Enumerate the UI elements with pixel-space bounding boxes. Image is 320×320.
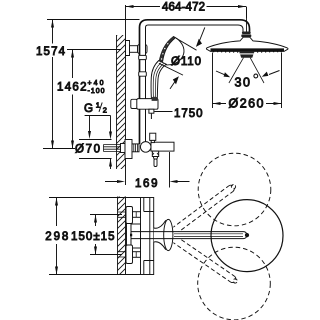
svg-text:30: 30 bbox=[235, 76, 251, 90]
reference line supply centerline bbox=[43, 148, 75, 150]
stem top lower view bbox=[133, 212, 141, 218]
wall hatching lower bbox=[110, 184, 132, 290]
valve ball joint circle bbox=[140, 142, 151, 153]
head circle dashed upper bbox=[198, 153, 271, 226]
spout bell bbox=[154, 219, 174, 250]
svg-text:2: 2 bbox=[103, 105, 107, 114]
manifold between unions bbox=[127, 224, 132, 246]
wall surface line upper bbox=[125, 5, 127, 185]
valve wall connector bbox=[132, 144, 139, 152]
head circle dashed lower bbox=[198, 247, 271, 320]
wall surface line lower bbox=[125, 197, 127, 276]
spray angle lines bbox=[229, 58, 264, 83]
pipe slider collar upper bbox=[139, 55, 147, 59]
svg-text:G: G bbox=[84, 102, 93, 115]
svg-text:150±15: 150±15 bbox=[71, 231, 115, 243]
extension line right of 464-472 bbox=[246, 7, 248, 19]
shower head dome bbox=[206, 37, 288, 52]
svg-text:Ø260: Ø260 bbox=[229, 97, 264, 111]
svg-text:169: 169 bbox=[135, 178, 158, 190]
pipe slider collar lower bbox=[139, 72, 147, 76]
mid block bbox=[131, 224, 141, 248]
swivel arm dashed lower position bbox=[172, 236, 239, 285]
svg-text:1: 1 bbox=[96, 101, 100, 110]
supply pipe stub behind wall bbox=[104, 144, 126, 153]
stem bottom lower view bbox=[133, 252, 141, 258]
dimension 1462 +40/-100 bbox=[56, 50, 122, 149]
shower head center spray ring bbox=[239, 51, 255, 58]
valve body upper view bbox=[151, 142, 174, 151]
dimension Ø110 bbox=[159, 27, 205, 89]
supply stubs behind wall lower view bbox=[118, 212, 126, 257]
svg-text:-100: -100 bbox=[88, 88, 105, 95]
svg-text:1750: 1750 bbox=[174, 108, 203, 120]
svg-text:Ø70: Ø70 bbox=[75, 144, 100, 156]
hand shower holder bbox=[131, 97, 158, 109]
head circle solid bbox=[211, 200, 283, 272]
riser pipe and top arm bbox=[140, 7, 250, 144]
valve escutcheon upper view bbox=[125, 140, 132, 159]
swivel arm solid bbox=[130, 232, 247, 239]
hand shower handle bbox=[151, 61, 166, 99]
shower head ball joint bbox=[241, 32, 251, 41]
label 1750 bbox=[154, 108, 202, 120]
dimension 1574 bbox=[35, 20, 140, 149]
escutcheon bottom lower view bbox=[126, 245, 133, 264]
arm pivot dot bbox=[245, 233, 249, 237]
dimension 169 bbox=[105, 152, 190, 190]
dimension 150±15 bbox=[71, 215, 122, 255]
hose nipple bbox=[149, 109, 154, 119]
dimension Ø70 bbox=[75, 140, 112, 170]
label 30 degrees bbox=[216, 71, 280, 90]
svg-text:Ø110: Ø110 bbox=[171, 56, 201, 68]
dimension Ø260 bbox=[213, 53, 282, 111]
dimension 298 bbox=[45, 198, 140, 275]
swivel arm dashed upper position bbox=[172, 183, 238, 234]
svg-text:298: 298 bbox=[45, 231, 68, 243]
svg-text:1574: 1574 bbox=[36, 46, 66, 58]
valve bottom outlet bbox=[152, 151, 158, 166]
svg-text:+40: +40 bbox=[88, 80, 104, 87]
dimension 464-472 bbox=[126, 2, 247, 14]
hand shower head bbox=[159, 37, 184, 65]
wall bracket top bbox=[126, 41, 148, 56]
label G 1/2 bbox=[84, 101, 112, 140]
valve top knob / hose connection bbox=[150, 133, 156, 142]
escutcheon top lower view bbox=[126, 207, 133, 224]
svg-text:464-472: 464-472 bbox=[162, 2, 205, 14]
svg-text:1462: 1462 bbox=[57, 82, 87, 94]
wall hatching upper bbox=[108, 22, 130, 188]
valve body lower view bbox=[141, 198, 154, 275]
